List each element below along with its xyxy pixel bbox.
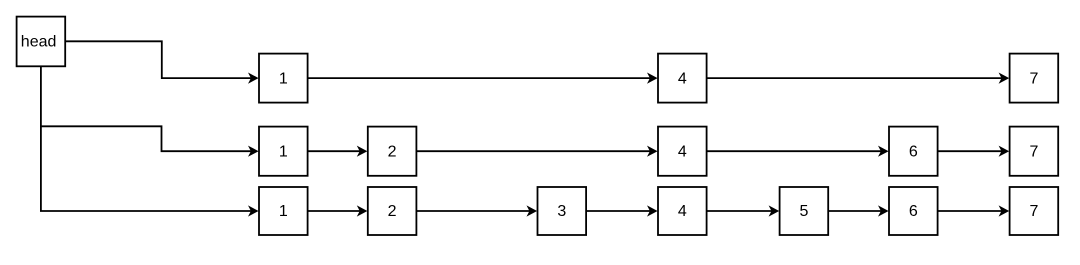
- node 3 (level 3): [538, 187, 587, 235]
- svg-text:1: 1: [279, 143, 288, 160]
- node 2 (level 2): [368, 127, 417, 176]
- node 2 (level 3): [368, 187, 417, 235]
- svg-text:4: 4: [678, 203, 687, 220]
- node 4 (level 1): [658, 54, 707, 103]
- node 6 (level 2): [889, 127, 938, 176]
- svg-text:2: 2: [388, 203, 397, 220]
- svg-text:3: 3: [557, 203, 566, 220]
- wire node4 to node5 level3: [707, 205, 780, 216]
- svg-text:2: 2: [388, 143, 397, 160]
- node 4 (level 3): [658, 187, 707, 235]
- wire node6 to node7 level2: [938, 146, 1010, 157]
- node 4 (level 2): [658, 127, 707, 176]
- svg-text:1: 1: [279, 203, 288, 220]
- node 6 (level 3): [889, 187, 938, 235]
- svg-text:4: 4: [678, 143, 687, 160]
- node 5 (level 3): [780, 187, 829, 235]
- svg-text:6: 6: [909, 143, 918, 160]
- node 7 (level 1): [1010, 54, 1059, 103]
- node 7 (level 2): [1010, 127, 1059, 176]
- wire node4 to node7 level1: [707, 73, 1010, 84]
- wire node4 to node6 level2: [707, 146, 889, 157]
- wire node1 to node2 level3: [308, 205, 368, 216]
- wire node3 to node4 level3: [586, 205, 658, 216]
- svg-text:4: 4: [678, 70, 687, 87]
- wire head to node1 level3: [41, 66, 259, 216]
- wire node1 to node4 level1: [308, 73, 658, 84]
- node 1 (level 3): [259, 187, 308, 235]
- svg-text:1: 1: [279, 70, 288, 87]
- svg-text:7: 7: [1029, 203, 1038, 220]
- svg-text:5: 5: [799, 203, 808, 220]
- node head: [17, 17, 66, 67]
- svg-text:7: 7: [1029, 70, 1038, 87]
- svg-text:7: 7: [1029, 143, 1038, 160]
- wire head to node1 level2: [41, 126, 259, 157]
- wire node5 to node6 level3: [828, 205, 888, 216]
- wire node1 to node2 level2: [308, 146, 368, 157]
- wire head to node1 level1: [65, 41, 258, 83]
- svg-text:head: head: [21, 34, 57, 51]
- svg-text:6: 6: [909, 203, 918, 220]
- wire node2 to node4 level2: [416, 146, 657, 157]
- wire node2 to node3 level3: [416, 205, 537, 216]
- node 7 (level 3): [1010, 187, 1059, 235]
- node 1 (level 1): [259, 54, 308, 103]
- node 1 (level 2): [259, 127, 308, 176]
- wire node6 to node7 level3: [938, 205, 1010, 216]
